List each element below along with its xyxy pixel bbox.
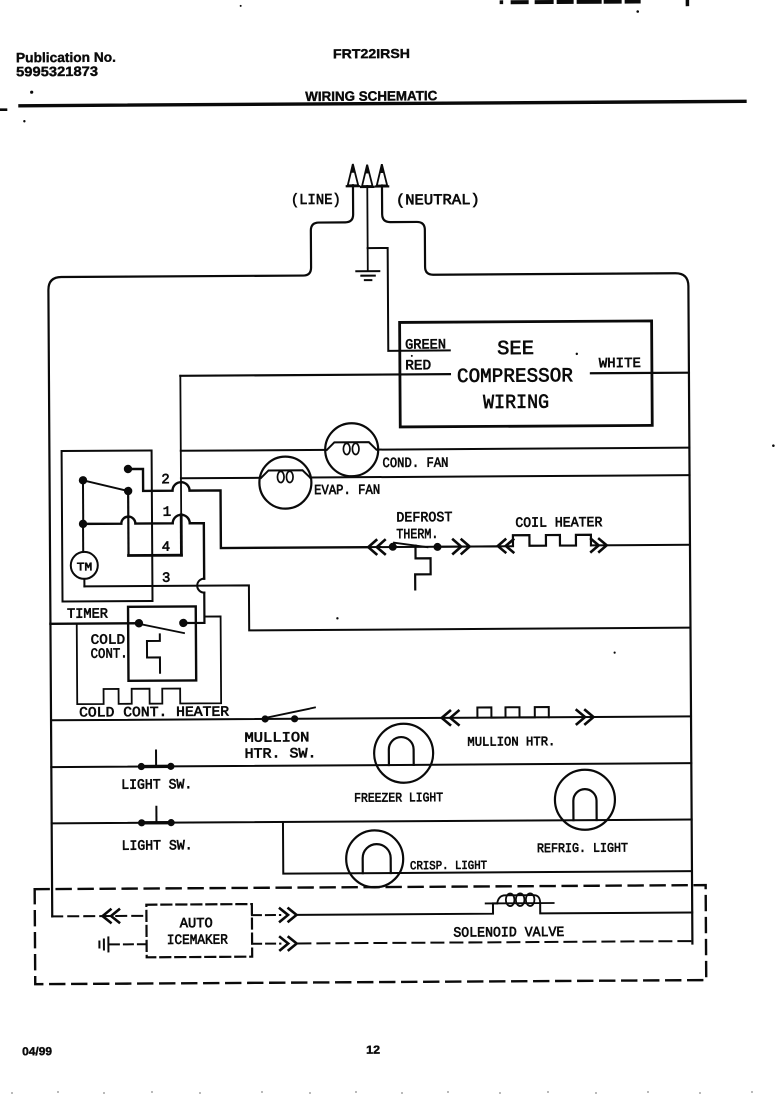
motor COND. FAN winding loops <box>343 443 359 454</box>
connector chevrons: coil heater left <box>498 539 514 552</box>
svg-text:CRISP. LIGHT: CRISP. LIGHT <box>410 859 487 873</box>
wire: evaporator fan rail left segment <box>181 477 261 479</box>
wire: timer terminal 4 rail <box>129 554 182 557</box>
connector chevrons: mullion heater left <box>442 711 459 725</box>
defrost thermostat bulb step symbol <box>415 546 431 590</box>
wire: dashed icemaker right leads to plugs <box>252 915 280 944</box>
svg-text:4: 4 <box>162 540 171 556</box>
wire: NEUTRAL drop with S-curves into outer box top-right edge and right bus down to solenoid <box>382 184 692 946</box>
svg-text:THERM.: THERM. <box>396 527 438 543</box>
svg-text:SOLENOID VALVE: SOLENOID VALVE <box>453 925 564 942</box>
svg-text:DEFROST: DEFROST <box>396 510 452 526</box>
wire: dashed lead left bus to icemaker <box>52 915 146 918</box>
svg-text:LIGHT SW.: LIGHT SW. <box>122 838 193 854</box>
wire: center ground stem <box>366 186 369 271</box>
svg-text:COND. FAN: COND. FAN <box>382 456 448 472</box>
chassis ground symbol at icemaker <box>99 937 108 951</box>
svg-text:GREEN: GREEN <box>405 337 446 353</box>
svg-text:CONT.: CONT. <box>91 647 128 663</box>
wire: timer wiper pivot down to motor tap <box>82 480 84 524</box>
wire: left bus vertical lower thick segment from terminal 1 bump to terminal 4 wire <box>180 515 183 555</box>
svg-text:FREEZER LIGHT: FREEZER LIGHT <box>354 790 443 806</box>
svg-text:MULLION: MULLION <box>244 730 309 746</box>
solenoid valve coil loops <box>486 893 554 906</box>
heater element: coil heater square-wave <box>513 535 591 546</box>
svg-text:EVAP. FAN: EVAP. FAN <box>314 483 380 499</box>
wire: timer terminal 3 rail across and down to lower run toward right bus <box>84 583 690 632</box>
connector chevrons: icemaker output plug bottom <box>280 937 297 950</box>
timer box outline <box>62 450 153 601</box>
svg-text:COMPRESSOR: COMPRESSOR <box>457 365 573 389</box>
svg-text:2: 2 <box>161 472 170 488</box>
junction dot: cold control left contact <box>135 619 143 627</box>
pin arrow: ground pin <box>361 165 374 187</box>
wire: mullion heater rail <box>51 716 691 720</box>
wire: dashed icemaker second lead across to right <box>298 941 692 943</box>
wire: freezer light rail (light switch 1) <box>51 763 691 767</box>
wire: red lead from left bus to compressor box <box>180 374 450 376</box>
lamp filament: crisper light <box>363 844 391 873</box>
svg-text:12: 12 <box>366 1045 380 1057</box>
svg-text:HTR. SW.: HTR. SW. <box>244 746 316 762</box>
lamp: crisper light circle <box>346 830 403 887</box>
cold control heater wrapper with heater bumps <box>77 616 221 704</box>
wire: dashed icemaker ground lead <box>110 943 146 945</box>
svg-text:LIGHT SW.: LIGHT SW. <box>121 777 192 793</box>
switch arm: cold control blade <box>140 624 184 634</box>
wire: terminal 1 drop to cold control right contact <box>183 593 204 623</box>
connector chevrons: icemaker output plug top <box>280 908 297 921</box>
wire: motor tap down to TM <box>82 524 84 552</box>
wire: crisper light branch and outer box bottom run to right bus <box>283 819 692 873</box>
junction dot: timer motor tap <box>79 520 87 528</box>
wire: LINE drop with S-curves into outer box top-left edge and left bus down to icemaker <box>48 185 358 916</box>
connector chevrons: defrost left (plug) <box>368 540 385 554</box>
lamp: freezer light circle <box>374 724 433 783</box>
connector chevrons: coil heater right <box>591 539 607 552</box>
junction dot: defrost thermostat left <box>389 543 397 551</box>
wire: defrost thermostat to coil heater <box>441 545 500 547</box>
junction dot: light switch 1 left <box>138 763 145 770</box>
cut-off text remnants at top edge <box>500 0 690 7</box>
svg-text:REFRIG. LIGHT: REFRIG. LIGHT <box>537 841 628 857</box>
junction dot: cold control right contact <box>179 619 187 627</box>
wire: green lead from ground stem to compressor box <box>368 248 450 351</box>
pin arrow: NEUTRAL <box>376 164 389 186</box>
switch plunger: light switch 1 <box>155 750 157 766</box>
icemaker dashed box <box>146 904 252 957</box>
svg-text:1: 1 <box>163 505 172 521</box>
motor EVAP. FAN circle <box>259 456 311 508</box>
junction dot: timer contact mid <box>124 487 132 495</box>
switch arm: defrost thermostat blade <box>394 542 428 547</box>
wire: left bus vertical from red lead down through fan taps to timer terminal bumps <box>179 376 182 515</box>
svg-text:COIL HEATER: COIL HEATER <box>515 515 603 532</box>
motor EVAP. FAN winding bridge <box>261 470 310 478</box>
connector chevrons: mullion heater right <box>577 710 594 724</box>
svg-text:WHITE: WHITE <box>599 356 641 372</box>
wire: condenser fan rail right segment to right bus <box>378 448 689 450</box>
scan specks near header <box>0 2 640 122</box>
heater element: mullion heater square-wave <box>477 707 548 718</box>
wire: feed from left bus to cold control <box>50 622 138 625</box>
junction dot: defrost thermostat right <box>433 543 441 551</box>
junction dot: mullion switch left <box>262 715 269 722</box>
pin arrow: LINE <box>347 164 360 186</box>
timer motor TM circle <box>71 552 98 579</box>
svg-text:TIMER: TIMER <box>67 607 109 623</box>
svg-text:(NEUTRAL): (NEUTRAL) <box>396 192 480 210</box>
wire: timer terminal 2 lead with terminal bump, over to defrost rail <box>128 468 368 549</box>
wire: TM bottom to terminal 3 rail <box>83 579 85 586</box>
compressor box: SEE COMPRESSOR WIRING <box>400 321 653 427</box>
wire: defrost rail from timer lead to right bus <box>368 545 690 547</box>
ground symbol (earth) <box>356 271 379 280</box>
switch contact bar: light switch 1 <box>141 765 170 769</box>
dashed enclosure: icemaker/solenoid compartment <box>35 885 707 984</box>
junction dot: light switch 1 right <box>167 763 174 770</box>
svg-text:SEE: SEE <box>497 338 534 361</box>
junction dot: light switch 2 left <box>138 819 145 826</box>
lamp: refrigerator light circle <box>555 770 615 830</box>
svg-text:AUTO: AUTO <box>180 916 213 932</box>
wire: crisper light rail (light switch 2) <box>52 819 692 823</box>
switch contact bar: light switch 2 <box>142 821 171 825</box>
switch arm: timer wiper <box>83 480 128 491</box>
junction dot: mullion switch right <box>291 715 298 722</box>
cold control box outline <box>128 606 196 680</box>
lamp filament: refrigerator light <box>573 789 596 820</box>
switch plunger: light switch 2 <box>155 807 157 823</box>
wire: solenoid to right bus <box>540 902 692 913</box>
wire: hop of terminal 1 drop around timer 3 rail <box>197 579 204 593</box>
svg-text:(LINE): (LINE) <box>291 192 341 209</box>
wire: timer terminal 1 lead with crossover humps and terminal bump, down right side <box>83 515 204 580</box>
junction dot: light switch 2 right <box>168 819 175 826</box>
junction dot: timer contact top <box>124 465 132 473</box>
scan specks in drawing area <box>335 351 776 655</box>
motor EVAP. FAN winding loops <box>277 471 293 482</box>
connector chevrons: defrost right (plug) <box>453 540 470 554</box>
cold control bellows step symbol <box>147 634 160 672</box>
scan noise dot row at bottom <box>11 1091 753 1094</box>
svg-text:Publication No.: Publication No. <box>16 50 116 66</box>
svg-text:ICEMAKER: ICEMAKER <box>167 933 229 949</box>
wire: condenser fan rail left segment <box>181 449 326 452</box>
svg-text:3: 3 <box>162 571 171 587</box>
wire: evaporator fan rail right segment to right bus <box>310 475 689 477</box>
svg-text:TM: TM <box>77 561 93 574</box>
svg-text:5995321873: 5995321873 <box>16 64 99 80</box>
lamp filament: freezer light <box>389 737 414 765</box>
switch arm: mullion heater switch <box>266 707 315 717</box>
svg-text:FRT22IRSH: FRT22IRSH <box>333 46 410 61</box>
wire: white lead from compressor box to right bus <box>591 372 689 375</box>
svg-text:04/99: 04/99 <box>22 1046 52 1058</box>
wire: timer contact mid down to terminal 4 rail <box>127 491 130 555</box>
svg-text:MULLION HTR.: MULLION HTR. <box>467 734 555 750</box>
svg-text:RED: RED <box>405 358 431 374</box>
connector chevrons: icemaker supply plug <box>102 909 119 922</box>
header underline rule <box>20 101 745 105</box>
svg-text:WIRING: WIRING <box>483 392 549 415</box>
motor COND. FAN winding bridge <box>327 442 377 450</box>
junction dot: timer wiper pivot <box>79 476 87 484</box>
wire: solenoid feed from icemaker plug <box>298 903 497 915</box>
motor COND. FAN circle <box>325 423 378 476</box>
